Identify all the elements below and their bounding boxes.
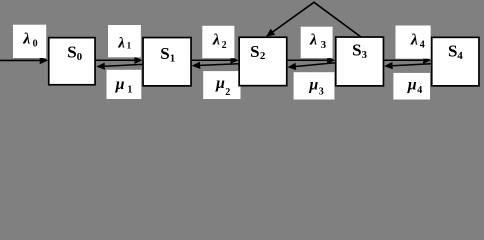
wire: mu4 arrow S4 back to S3 [384, 62, 431, 69]
wire: mu2 arrow S2 back to S1 [192, 62, 239, 69]
svg-text:μ: μ [308, 77, 318, 94]
svg-text:μ: μ [407, 76, 417, 93]
svg-text:S: S [160, 44, 169, 63]
svg-text:2: 2 [222, 40, 227, 51]
svg-text:4: 4 [457, 50, 463, 62]
svg-text:2: 2 [260, 50, 266, 62]
svg-text:λ: λ [410, 32, 418, 49]
svg-text:λ: λ [22, 30, 30, 47]
svg-text:0: 0 [33, 38, 38, 49]
wire: lambda3 arrow S2 to S3 [287, 57, 335, 64]
label box mu_2 [203, 71, 240, 99]
svg-text:μ: μ [215, 75, 225, 92]
wire: lambda1 arrow S0 to S1 [96, 57, 143, 64]
wire: lambda4 arrow S3 to S4 [384, 57, 431, 64]
svg-text:3: 3 [321, 39, 327, 51]
label box lambda_4 [396, 26, 431, 59]
label box lambda_3 [301, 27, 333, 58]
svg-text:3: 3 [319, 87, 324, 98]
wire: lambda0 arrow entering S0 from left edge [0, 57, 48, 65]
svg-text:4: 4 [420, 40, 425, 51]
svg-text:S: S [352, 41, 361, 60]
svg-text:1: 1 [170, 52, 176, 64]
svg-text:S: S [250, 42, 259, 61]
state box S2 [239, 37, 287, 85]
label box mu_4 [393, 73, 430, 100]
state box S4 [432, 37, 479, 86]
svg-text:λ: λ [212, 31, 220, 48]
state box S0 [49, 38, 95, 85]
svg-text:0: 0 [77, 51, 83, 63]
label box mu_3 [294, 72, 335, 99]
svg-text:μ: μ [115, 76, 125, 93]
wire: mu1 arrow S1 back to S0 [96, 63, 142, 70]
svg-text:1: 1 [127, 84, 132, 95]
svg-text:4: 4 [417, 85, 422, 96]
svg-text:λ: λ [309, 32, 317, 49]
label box lambda_1 [108, 25, 141, 57]
wire: mu3 arrow S3 back to S2 [287, 63, 335, 70]
svg-text:3: 3 [362, 49, 368, 61]
state box S3 [336, 37, 384, 86]
wire: bent repair arrow from S3 top over peak into S2 top [266, 2, 361, 36]
label box mu_1 [107, 70, 142, 99]
svg-text:λ: λ [117, 35, 125, 51]
svg-text:1: 1 [127, 41, 132, 51]
wire: lambda2 arrow S1 to S2 [192, 57, 239, 64]
svg-text:S: S [67, 43, 76, 62]
label box lambda_0 [13, 25, 46, 58]
state box S1 [143, 38, 191, 86]
svg-text:2: 2 [225, 87, 230, 98]
label box lambda_2 [202, 26, 234, 58]
svg-text:S: S [448, 42, 457, 61]
